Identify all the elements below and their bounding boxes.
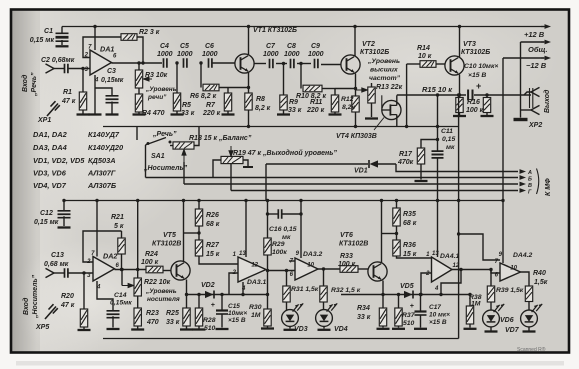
wire DA1 pin4 down (94, 75, 96, 114)
wire VT4 drain up (396, 95, 398, 105)
capacitor C16 (268, 213, 279, 215)
svg-text:VT2: VT2 (362, 41, 375, 48)
ground C3 (106, 113, 119, 115)
svg-text:R17: R17 (399, 151, 413, 158)
stub DA3.2 pin7 (289, 260, 295, 262)
node R37 top (397, 293, 400, 296)
wire C6 to VT1 base (212, 62, 235, 64)
ground R4 (133, 113, 146, 115)
resistor R7 (227, 88, 229, 94)
svg-text:1000: 1000 (308, 51, 324, 58)
LED VD7 (521, 310, 538, 327)
wire R6 to VT1 emitter (219, 87, 249, 89)
svg-text:+12 В: +12 В (524, 30, 545, 39)
wire VT1 emitter down (248, 73, 250, 94)
connector XP2 bracket (530, 88, 533, 108)
svg-text:47 к: 47 к (60, 302, 75, 309)
wire VT3 collector to rail (459, 27, 461, 58)
svg-text:высших: высших (370, 67, 399, 74)
svg-text:33 к: 33 к (181, 110, 195, 117)
capacitor C4 (164, 58, 167, 68)
svg-text:33 к: 33 к (357, 314, 371, 321)
svg-text:Б: Б (528, 177, 532, 183)
svg-text:SA1: SA1 (151, 153, 165, 160)
ground R23 (131, 328, 144, 330)
svg-text:VT5: VT5 (163, 232, 176, 239)
svg-text:470к: 470к (397, 159, 414, 166)
node rail (457, 199, 460, 202)
svg-text:0,15мк: 0,15мк (101, 77, 124, 84)
wire R11 to VT2 emitter (335, 88, 356, 90)
svg-text:АЛ307Г: АЛ307Г (87, 169, 116, 178)
svg-text:В: В (528, 183, 532, 189)
wire VD5 line (341, 294, 470, 296)
svg-text:С1: С1 (44, 28, 53, 35)
ground R5 (171, 113, 184, 115)
ground R38 (464, 328, 477, 330)
svg-text:VT3: VT3 (463, 41, 476, 48)
resistor R4 (138, 88, 140, 94)
node rail (244, 199, 247, 202)
op-amp DA4.1 (432, 257, 453, 282)
svg-text:1000: 1000 (284, 51, 300, 58)
svg-text:мк: мк (282, 234, 291, 241)
input jack XP1 fork (46, 64, 55, 73)
wire VT3 emitter down (459, 75, 461, 96)
wire R19 wiper down (230, 164, 232, 191)
wire R19 left (213, 160, 221, 178)
resistor R8 (245, 93, 252, 110)
svg-text:R2 3 к: R2 3 к (139, 29, 160, 36)
wiper R18 down (182, 150, 186, 162)
node top rail VT3 (458, 25, 461, 28)
svg-text:510: 510 (204, 325, 216, 332)
svg-text:DA3.1: DA3.1 (247, 279, 266, 286)
connector XP2 fork lower (531, 105, 540, 114)
wire VT2 collector to rail (354, 27, 356, 57)
capacitor C11 (432, 151, 444, 154)
svg-text:С3: С3 (107, 68, 116, 75)
node rail (299, 199, 302, 202)
svg-text:R31 1,5к: R31 1,5к (291, 286, 319, 293)
wire DA2 pin4 to C14 (97, 281, 113, 311)
wire XP2 lower (521, 109, 532, 111)
wire VT6 emitter down (382, 281, 384, 309)
wire riser to DA3.1 pin2 (229, 273, 238, 295)
svg-text:8,2к: 8,2к (342, 104, 355, 111)
wire jog to DA4.2 pin7 (459, 234, 500, 260)
svg-text:ХР2: ХР2 (528, 122, 542, 129)
capacitor C10 electrolytic (468, 90, 472, 101)
ground R11 (329, 113, 342, 115)
LED VD3 (282, 310, 299, 327)
resistor R17 (420, 146, 422, 148)
svg-text:VD4: VD4 (334, 326, 348, 333)
svg-text:R40: R40 (533, 270, 546, 277)
wire R14 to VT3 base (436, 63, 445, 65)
svg-text:1000: 1000 (263, 51, 279, 58)
feedback jog DA4.1 (441, 270, 461, 295)
svg-text:12: 12 (453, 263, 460, 269)
svg-text:×15 В: ×15 В (429, 319, 447, 326)
wire C7-C8 (276, 63, 287, 65)
resistor R5 (176, 63, 178, 93)
wire mid rail (103, 126, 459, 128)
node R1 top (81, 67, 84, 70)
wire C2 to DA1 pin3 (68, 68, 90, 70)
svg-text:носителя: носителя (147, 296, 180, 303)
svg-text:13: 13 (432, 251, 439, 257)
node mid rail R8 (247, 125, 250, 128)
resistor R25 (183, 308, 190, 326)
ground R17 (415, 180, 428, 182)
svg-text:С11: С11 (441, 128, 453, 135)
wire R10 to R11 (322, 88, 335, 90)
wire bottom section top rail (63, 200, 504, 202)
svg-text:мк: мк (446, 144, 455, 151)
svg-text:R25: R25 (166, 310, 179, 317)
svg-text:КТ3102Б: КТ3102Б (360, 49, 389, 56)
ground R13 (365, 117, 378, 119)
node rail (95, 199, 98, 202)
wire VD1 line (266, 163, 368, 165)
ground R19 (243, 160, 248, 166)
svg-text:С10 10мк×: С10 10мк× (464, 63, 498, 70)
transistor VT2 (341, 55, 360, 74)
svg-text:VT1 КТ3102Б: VT1 КТ3102Б (253, 27, 297, 34)
arrow bus B (520, 177, 522, 179)
ground R16 (481, 115, 494, 117)
svg-text:DA3.2: DA3.2 (303, 251, 322, 258)
LED VD6 (483, 310, 500, 327)
resistor R31 (286, 271, 288, 287)
resistor R23 (137, 296, 139, 308)
svg-text:DA2: DA2 (103, 252, 117, 261)
wire -12V column down (502, 58, 504, 263)
svg-text:68 к: 68 к (206, 221, 220, 228)
resistor R2 (121, 34, 137, 41)
wire DA2 output (115, 269, 147, 271)
capacitor C13 (65, 268, 68, 278)
svg-text:R24: R24 (145, 251, 158, 258)
connector XP2 fork upper (524, 92, 531, 95)
ground R30 (261, 327, 274, 329)
diode VD5 (404, 291, 413, 298)
svg-text:VD6: VD6 (500, 317, 514, 324)
node rail (136, 199, 139, 202)
wire DA4.1 output (452, 269, 491, 271)
svg-text:К140УД20: К140УД20 (88, 143, 124, 152)
svg-text:DA4.1: DA4.1 (440, 253, 459, 260)
svg-text:R15 10 к: R15 10 к (422, 85, 453, 94)
node R10 top (299, 62, 302, 65)
capacitor C8 (291, 59, 294, 68)
svg-text:1000: 1000 (202, 51, 218, 58)
resistor R12 (352, 96, 359, 112)
svg-text:100 к: 100 к (141, 259, 159, 266)
capacitor C1 (61, 27, 63, 34)
node R16 (485, 93, 488, 96)
svg-text:0,15 мк: 0,15 мк (30, 37, 55, 44)
wire VT2 emitter down (355, 74, 357, 97)
svg-text:−12 В: −12 В (526, 61, 547, 70)
wire bus A (396, 164, 518, 172)
wire VT5 collector to divider junction (184, 232, 200, 234)
wire drain line to XP2 (397, 94, 466, 96)
svg-text:R5: R5 (182, 102, 191, 109)
ground R20 (78, 329, 91, 331)
svg-text:2: 2 (425, 271, 430, 277)
wiper R19 from top (229, 146, 233, 156)
wire VT1 to C7 (254, 63, 266, 65)
resistor R28 (198, 295, 200, 309)
node R20 top (82, 271, 85, 274)
svg-text:15 к: 15 к (403, 251, 417, 258)
ground C1 (56, 45, 69, 47)
capacitor C3 (95, 88, 112, 96)
node R6 top (199, 61, 202, 64)
svg-text:С13: С13 (51, 252, 64, 259)
op-amp DA1 (90, 50, 112, 75)
wire common column to XP2 ground (520, 42, 522, 118)
arrow +12V (541, 26, 547, 28)
node R15 (458, 93, 461, 96)
wire bus G (231, 190, 518, 192)
svg-text:R34: R34 (357, 305, 370, 312)
svg-text:С8: С8 (287, 43, 296, 50)
svg-text:КТ3102В: КТ3102В (152, 241, 181, 248)
capacitor C6 (209, 58, 212, 68)
wire VT4 source down (396, 115, 398, 127)
node rail (62, 199, 65, 202)
wire DA1 output (112, 62, 163, 64)
node R3 top (137, 61, 140, 64)
capacitor C9 (315, 59, 318, 68)
svg-text:DA1: DA1 (100, 45, 114, 54)
wire +12V top rail (62, 26, 544, 28)
node R38 top (468, 293, 471, 296)
node C17 top (419, 293, 422, 296)
svg-text:С5: С5 (180, 43, 189, 50)
wire to R10 (300, 64, 302, 89)
wire R2 to output (137, 37, 143, 63)
wire R36 to DA4.1 input (397, 256, 432, 258)
wire DA1 pin7 to rail (94, 27, 96, 51)
svg-text:Scanned R®: Scanned R® (517, 346, 546, 353)
node VT6 emitter (381, 293, 384, 296)
resistor R20 (83, 273, 85, 309)
svg-text:R16: R16 (467, 99, 480, 106)
wire column x458 down (458, 95, 460, 339)
svg-text:VT6: VT6 (340, 232, 353, 239)
svg-text:10 мк×: 10 мк× (429, 312, 450, 319)
wire DA3.1 pin4 down (242, 282, 244, 295)
op-amp DA4.2 (500, 263, 521, 281)
resistor R35 (396, 201, 398, 209)
wire VD2 line (187, 294, 268, 296)
op-amp DA2 (93, 257, 115, 282)
svg-text:R26: R26 (206, 212, 219, 219)
svg-text:R1: R1 (63, 89, 72, 96)
svg-text:Общ.: Общ. (528, 45, 548, 54)
svg-text:0,68 мк: 0,68 мк (44, 261, 69, 268)
svg-text:R33: R33 (340, 253, 353, 260)
svg-text:„Речь”: „Речь” (152, 131, 177, 138)
wire to R6 (200, 63, 202, 88)
svg-text:33 к: 33 к (166, 319, 180, 326)
svg-text:1000: 1000 (177, 51, 193, 58)
potentiometer R19 output level (221, 156, 243, 163)
arrow bus G (520, 190, 522, 192)
svg-text:12: 12 (251, 263, 258, 269)
node VT5 emitter (185, 293, 188, 296)
capacitor C5 (184, 58, 187, 68)
svg-text:5 к: 5 к (114, 223, 124, 230)
svg-text:DA4.2: DA4.2 (513, 252, 532, 259)
node top rail VT1 (247, 25, 250, 28)
input fork XP5 wire (46, 268, 55, 277)
svg-text:0,15 мк: 0,15 мк (34, 219, 59, 226)
node R28 top (197, 293, 200, 296)
wire C11 column lower (437, 158, 439, 257)
wire DA3.1 pin13 up (245, 201, 247, 258)
svg-text:Вход: Вход (21, 74, 29, 92)
svg-text:С6: С6 (205, 43, 214, 50)
svg-text:Выход: Выход (543, 89, 551, 113)
ground VD6 (485, 330, 498, 332)
node rail (436, 199, 439, 202)
resistor R14 (407, 63, 420, 65)
svg-text:С15: С15 (228, 303, 240, 310)
transistor VT5 (163, 270, 171, 272)
capacitor C17 electrolytic (420, 295, 422, 311)
connector XP1 (47, 101, 60, 116)
svg-text:R29: R29 (272, 241, 285, 248)
transistor VT6 (358, 268, 368, 270)
svg-text:R3 10к: R3 10к (145, 72, 168, 79)
diode VD2 (205, 291, 214, 298)
capacitor C15 electrolytic (221, 295, 223, 310)
resistor R11 (334, 89, 336, 96)
diode VD1 (370, 160, 379, 167)
resistor R30 (264, 309, 271, 326)
svg-text:R14: R14 (417, 45, 430, 52)
potentiometer R18 balance (170, 145, 173, 147)
node top rail VT2 (353, 25, 356, 28)
svg-text:1,5к: 1,5к (534, 279, 548, 286)
wire R14 column (406, 64, 408, 127)
wire C8-C9 (297, 63, 311, 65)
capacitor C2 (65, 64, 68, 73)
resistor R29 (267, 201, 269, 239)
wire VT6 collector up (381, 201, 383, 264)
svg-text:×15 В: ×15 В (468, 72, 486, 79)
ground R15 (453, 115, 466, 117)
potentiometer R3 speech level (138, 63, 140, 70)
resistor R37 (398, 295, 400, 309)
ground C14 (107, 328, 120, 330)
svg-text:100 к: 100 к (338, 261, 356, 268)
resistor R36 (396, 226, 398, 240)
arrow bus V (520, 183, 522, 185)
svg-text:10мк×: 10мк× (228, 310, 247, 317)
svg-text:10: 10 (510, 266, 517, 272)
wire VT1 collector to rail (248, 27, 250, 56)
svg-text:R4 470: R4 470 (142, 110, 165, 117)
node mid rail C11col (436, 125, 439, 128)
svg-text:R37: R37 (402, 312, 416, 319)
ground XP2 (514, 118, 528, 121)
svg-text:+: + (476, 81, 481, 91)
svg-text:К МФ: К МФ (545, 178, 552, 196)
ground R28 (193, 328, 206, 330)
resistor R27 (198, 226, 200, 240)
wire switch from mid rail (136, 127, 138, 141)
resistor R40 (525, 286, 532, 302)
wire DA4.1 pin2 (421, 273, 432, 295)
svg-text:0,15: 0,15 (442, 136, 455, 143)
node rail (501, 199, 504, 202)
arrow -12V (541, 57, 547, 59)
svg-text:речи”: речи” (147, 94, 167, 101)
potentiometer R22 (137, 201, 139, 279)
node R39 top (489, 268, 492, 271)
svg-text:А: А (527, 170, 532, 176)
svg-text:„Носитель”: „Носитель” (32, 274, 39, 319)
LED VD4 (316, 310, 333, 327)
arrow bus A (520, 171, 522, 173)
ground R7 (222, 113, 235, 115)
wire VT6 collector to divider junction (382, 233, 397, 235)
capacitor C14 (107, 311, 120, 314)
node top rail DA1 (93, 25, 96, 28)
svg-text:8,2 к: 8,2 к (255, 105, 271, 112)
node rail (197, 199, 200, 202)
svg-text:68 к: 68 к (403, 220, 417, 227)
wire DA3.2 pin9 up (300, 201, 302, 259)
node R31 top (285, 269, 288, 272)
node R9 top (282, 62, 285, 65)
wire R30 column (267, 271, 269, 310)
transistor VT1 (235, 54, 254, 73)
node mid rail R12 (354, 125, 357, 128)
ground R9 (277, 113, 290, 115)
svg-text:„Уровень: „Уровень (145, 288, 177, 295)
svg-text:510: 510 (403, 320, 415, 327)
node C15 top (220, 293, 223, 296)
svg-text:КД503А: КД503А (88, 156, 116, 165)
resistor R33 (340, 266, 358, 273)
svg-text:С12: С12 (40, 210, 53, 217)
svg-text:С4: С4 (160, 43, 169, 50)
svg-text:С9: С9 (311, 43, 320, 50)
capacitor C12 (63, 201, 65, 212)
svg-text:R36: R36 (403, 242, 416, 249)
ground R37 (392, 328, 405, 330)
resistor R10 (303, 85, 322, 92)
node R29 col (266, 269, 269, 272)
svg-text:С14: С14 (114, 292, 127, 299)
svg-text:10 к: 10 к (418, 53, 432, 60)
node R22 top (136, 268, 139, 271)
callout VT4 (374, 118, 384, 131)
wire C13 to DA2 pin3 (68, 272, 93, 274)
svg-text:220 к: 220 к (202, 110, 221, 117)
svg-text:VD7: VD7 (505, 327, 520, 334)
wiper arrow R13 (356, 88, 368, 92)
wire DA2 pin7 up (96, 201, 98, 257)
resistor R21 (121, 231, 123, 238)
